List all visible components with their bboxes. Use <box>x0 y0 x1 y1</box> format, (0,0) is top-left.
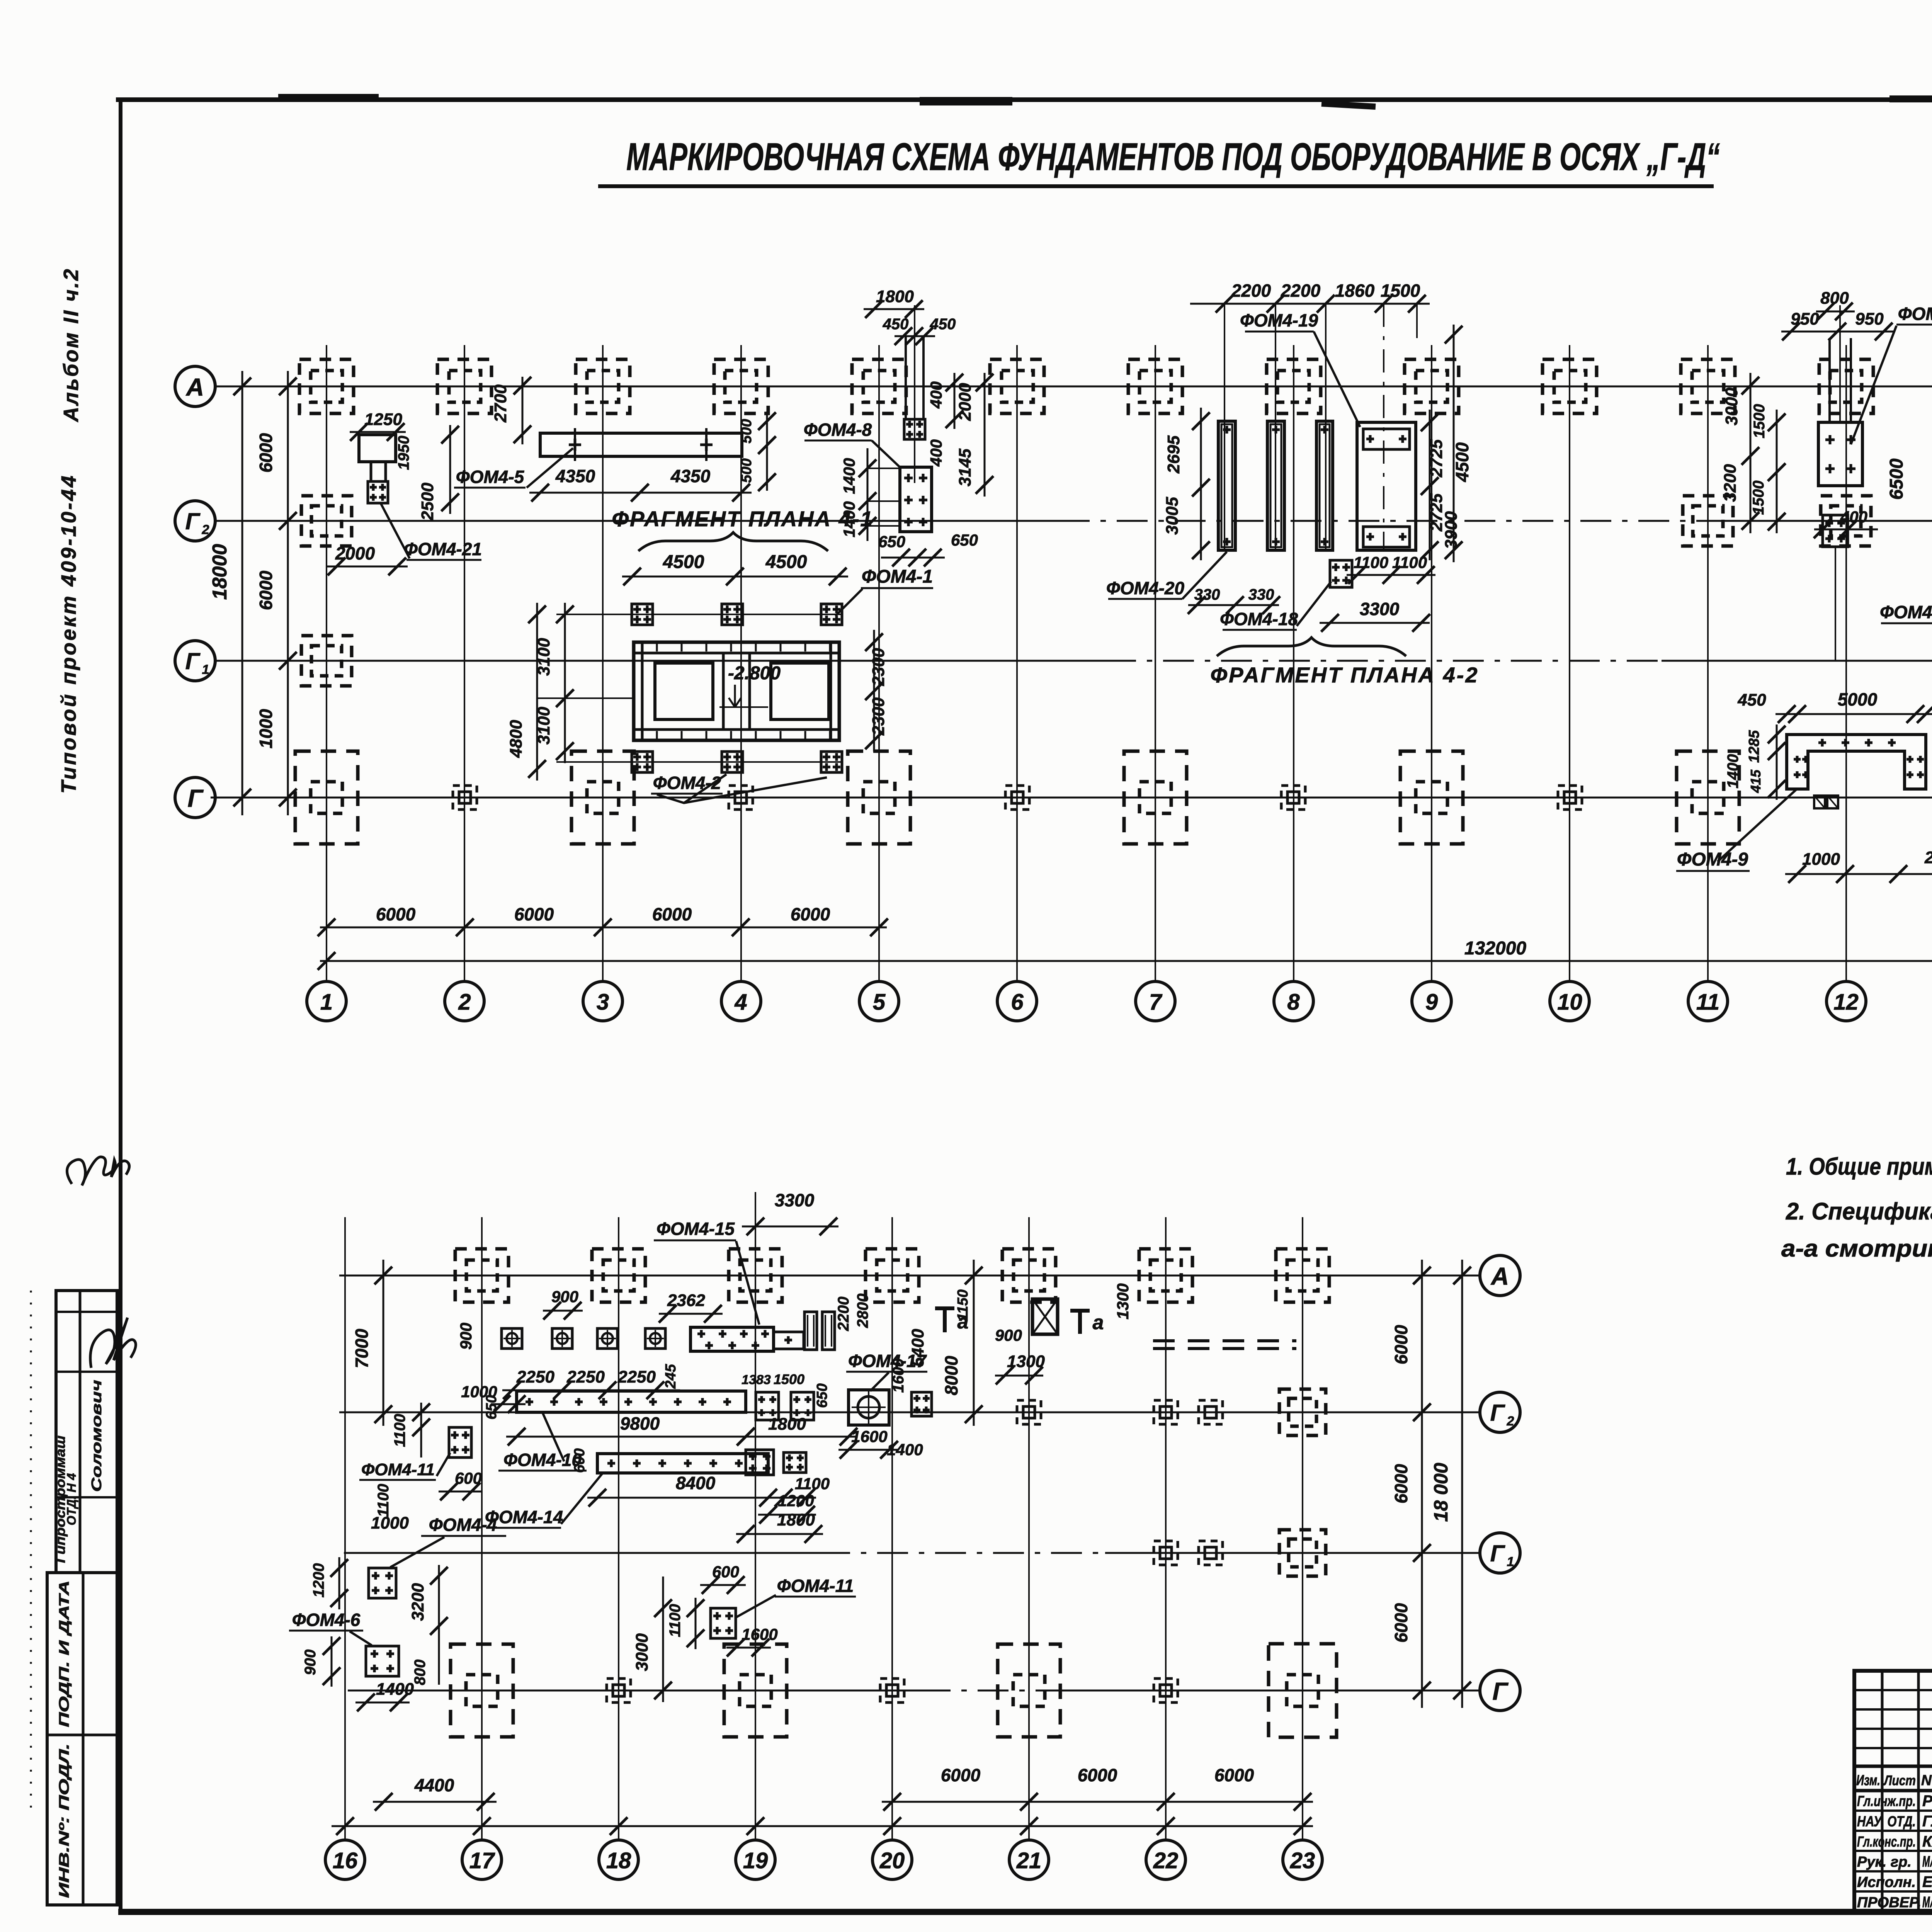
scan smudge top 1 <box>920 97 1012 105</box>
svg-text:10: 10 <box>1557 990 1582 1015</box>
pad FOM4-1 b <box>722 604 743 625</box>
grid circle 6 <box>997 981 1037 1021</box>
svg-text:18: 18 <box>606 1848 631 1873</box>
column G/8 <box>1281 786 1305 810</box>
bottom axis circle A <box>1480 1255 1520 1296</box>
leader FOM4-8 <box>872 440 901 468</box>
dim 450/5000/450 FOM4-9 <box>1776 713 1932 715</box>
foundation FOM4-3 no.1 <box>1818 422 1862 486</box>
svg-text:-2.800: -2.800 <box>728 663 781 684</box>
column A/22 <box>1139 1249 1192 1302</box>
svg-text:3200: 3200 <box>408 1583 427 1621</box>
svg-text:5: 5 <box>873 990 886 1015</box>
svg-text:2700: 2700 <box>491 384 510 423</box>
section mark Ta right <box>1078 1309 1082 1334</box>
column A/23 <box>1276 1249 1329 1302</box>
pad 400 on G2 axis12 <box>1823 515 1848 547</box>
foundation H-block outline <box>634 642 839 740</box>
svg-text:1100: 1100 <box>375 1484 392 1517</box>
svg-text:2300: 2300 <box>869 697 888 736</box>
column G/11 <box>1677 751 1739 844</box>
top plan axis row G2 line <box>215 520 1059 522</box>
svg-text:11: 11 <box>1696 990 1719 1015</box>
dim 3000/3200 left of axis12 <box>1750 373 1752 533</box>
margin signature big <box>90 1318 136 1368</box>
pad FOM4-18 <box>1330 560 1352 587</box>
grid circle 17 <box>462 1840 502 1879</box>
column A/3 <box>576 359 630 413</box>
grid circle 12 <box>1827 981 1866 1021</box>
svg-text:1200: 1200 <box>310 1563 327 1598</box>
grid circle 19 <box>736 1840 775 1879</box>
dim 3300 fragment 4-2 <box>1320 622 1430 624</box>
dim 4350+4350 FOM4-5 <box>529 492 752 494</box>
svg-text:650: 650 <box>814 1383 830 1408</box>
top plan vertical axis lines 1-16 <box>326 345 327 981</box>
svg-text:а: а <box>957 1311 969 1333</box>
overall dim line 132000 <box>320 960 1932 962</box>
svg-text:Лист: Лист <box>1883 1772 1916 1788</box>
bottom row G2 columns <box>1017 1400 1041 1424</box>
leader FOM4-21 <box>381 503 410 558</box>
svg-text:4350: 4350 <box>555 466 595 486</box>
foundation FOM4-8 pad <box>900 467 932 532</box>
svg-text:ИНВ.Nº: ПОДЛ.: ИНВ.Nº: ПОДЛ. <box>56 1743 72 1898</box>
H-block center slot <box>722 653 725 730</box>
svg-text:650: 650 <box>483 1395 500 1419</box>
svg-text:1500: 1500 <box>1750 481 1767 515</box>
svg-text:1600: 1600 <box>742 1625 777 1643</box>
top plan axis row A line <box>215 386 1932 388</box>
svg-text:2000: 2000 <box>956 383 975 421</box>
svg-text:ОТД. Н 4: ОТД. Н 4 <box>65 1473 78 1525</box>
margin handwritten initials <box>67 1157 129 1185</box>
column A/10 <box>1543 359 1597 413</box>
foundation FOM4-10 bar <box>517 1391 746 1412</box>
column A/2 <box>437 359 492 413</box>
svg-text:4: 4 <box>734 990 747 1015</box>
svg-text:Г: Г <box>1492 1677 1509 1705</box>
svg-text:Исполн.: Исполн. <box>1857 1874 1916 1891</box>
margin lower table cell line <box>47 1734 117 1736</box>
svg-text:Nºдокумента: Nºдокумента <box>1921 1772 1932 1789</box>
svg-text:6000: 6000 <box>1214 1765 1254 1785</box>
sheet title underline <box>598 184 1714 188</box>
svg-text:НАУ. ОТД.: НАУ. ОТД. <box>1857 1813 1916 1830</box>
grid circle 16 <box>325 1840 365 1879</box>
scan smudge top 2 <box>1321 104 1376 107</box>
leader FOM4-20 <box>1182 552 1227 599</box>
svg-text:3300: 3300 <box>1360 599 1400 619</box>
svg-text:500: 500 <box>738 458 755 483</box>
tie line left of H-block <box>537 697 634 699</box>
grid circle 2 <box>445 981 484 1021</box>
dim 4500/3900 right <box>1453 325 1455 562</box>
svg-text:ФОМ4-18: ФОМ4-18 <box>1220 609 1298 629</box>
svg-text:3200: 3200 <box>1721 464 1740 502</box>
top plan axis row G1 line <box>215 660 1105 662</box>
svg-text:1600: 1600 <box>890 1359 907 1393</box>
column A/9 <box>1405 359 1459 413</box>
leader FOM4-17 <box>870 1372 889 1391</box>
svg-text:1100: 1100 <box>1392 553 1427 571</box>
svg-text:1. Общие примечания смотр: 1. Общие примечания смотрите на листе КЖ… <box>1786 1153 1932 1180</box>
svg-text:Гл.конс.пр.: Гл.конс.пр. <box>1857 1834 1916 1850</box>
grid circle 7 <box>1136 981 1175 1021</box>
slab 2 <box>1267 421 1284 550</box>
svg-text:1400: 1400 <box>376 1680 414 1699</box>
svg-text:1100: 1100 <box>391 1414 408 1447</box>
svg-text:6000: 6000 <box>1078 1765 1117 1785</box>
leader FOM4-5 <box>527 448 573 488</box>
svg-text:Гл.инж.пр.: Гл.инж.пр. <box>1857 1793 1916 1810</box>
leader FOM4-1 <box>835 589 862 616</box>
scan smudge top 3 <box>1889 95 1932 102</box>
bottom full dim line <box>332 1825 1313 1827</box>
round pad row no.3 <box>597 1328 617 1349</box>
leader FOM4-9 <box>1718 790 1796 862</box>
svg-text:ФОМ4-9: ФОМ4-9 <box>1677 849 1748 870</box>
svg-text:8: 8 <box>1287 990 1300 1015</box>
dim 2300/2300 right of H-block <box>873 630 875 752</box>
bottom plan axis row G line <box>348 1690 920 1692</box>
column A/11 <box>1681 359 1735 413</box>
svg-text:2: 2 <box>202 522 209 537</box>
svg-text:3005: 3005 <box>1163 497 1182 535</box>
column G/4 <box>729 786 753 810</box>
svg-text:ЕРОХИНА: ЕРОХИНА <box>1922 1874 1932 1891</box>
svg-text:1950: 1950 <box>395 436 412 470</box>
svg-text:2200: 2200 <box>1281 281 1321 301</box>
column G2/12 <box>1821 496 1871 546</box>
column G2/11 <box>1683 496 1733 546</box>
dim 2695/3005 left of slabs <box>1200 408 1202 560</box>
svg-text:400: 400 <box>927 439 945 467</box>
svg-text:5400: 5400 <box>908 1329 927 1367</box>
svg-text:ФОМ4-6: ФОМ4-6 <box>292 1610 361 1630</box>
grid circle 11 <box>1688 981 1728 1021</box>
slab 1 FOM4-20 <box>1218 421 1235 550</box>
column G1/1 <box>301 636 352 686</box>
pad at end of FOM4-14 a <box>746 1450 774 1475</box>
svg-text:1: 1 <box>320 990 333 1015</box>
column A/1 <box>299 359 354 413</box>
svg-text:1000: 1000 <box>1802 850 1840 869</box>
svg-text:450: 450 <box>930 316 956 333</box>
svg-text:5000: 5000 <box>1838 689 1878 709</box>
column G/6 <box>1005 786 1029 810</box>
svg-text:Альбом II ч.2: Альбом II ч.2 <box>60 267 83 423</box>
solid pad between section marks <box>1032 1299 1058 1334</box>
svg-text:1500: 1500 <box>1381 281 1420 301</box>
svg-text:6000: 6000 <box>1391 1603 1411 1643</box>
bottom right dim line 18000 <box>1461 1260 1463 1708</box>
grid circle 8 <box>1274 981 1313 1021</box>
svg-text:2200: 2200 <box>835 1297 852 1332</box>
svg-text:8000: 8000 <box>941 1355 961 1395</box>
grid circle 20 <box>872 1840 912 1879</box>
svg-text:ФОМ4-11: ФОМ4-11 <box>777 1576 854 1596</box>
svg-text:А: А <box>185 373 204 401</box>
svg-text:1400: 1400 <box>840 501 858 537</box>
H-block bottom band hatch <box>656 731 658 739</box>
svg-text:МАСЛОБОЙЩИКОВА: МАСЛОБОЙЩИКОВА <box>1922 1852 1932 1870</box>
svg-text:21: 21 <box>1016 1848 1042 1873</box>
round pad row no.2 <box>552 1328 572 1349</box>
svg-text:6000: 6000 <box>652 904 692 924</box>
svg-text:800: 800 <box>1820 289 1849 308</box>
bottom plan axis row G2 line <box>339 1412 1480 1413</box>
svg-text:ФОМ4-5: ФОМ4-5 <box>456 467 525 487</box>
leader FOM4-18 <box>1297 582 1331 626</box>
margin upper table divider <box>79 1291 82 1573</box>
grid circle 22 <box>1146 1840 1185 1879</box>
leader FOM4-11 left <box>437 1453 450 1476</box>
svg-text:2800: 2800 <box>854 1294 871 1328</box>
svg-text:4350: 4350 <box>670 466 711 486</box>
dim 1100/1100 below block <box>1347 574 1435 576</box>
svg-text:22: 22 <box>1153 1848 1179 1873</box>
dim lines left of FOM4-8 pad <box>867 468 900 469</box>
FOM4-19 top insert pad <box>1363 429 1410 449</box>
frame border left <box>119 101 122 1913</box>
svg-text:1200: 1200 <box>778 1492 814 1510</box>
bottom axis circle G <box>1480 1670 1520 1711</box>
dim 4800 left <box>536 603 538 781</box>
svg-text:1000: 1000 <box>256 709 276 748</box>
left dim line 6000/6000/1000 <box>287 371 289 815</box>
column A/6 <box>990 359 1044 413</box>
title block signature rows <box>1854 1810 1932 1812</box>
svg-text:ФОМ4-10: ФОМ4-10 <box>503 1450 582 1470</box>
pads line fragment 4-1 <box>556 614 842 615</box>
column G/1 <box>295 751 358 844</box>
svg-text:2250: 2250 <box>566 1367 605 1386</box>
bottom axis circle G1 <box>1480 1533 1520 1573</box>
H-block left hole <box>655 663 713 719</box>
svg-text:1300: 1300 <box>1114 1283 1132 1319</box>
column A/8 <box>1267 359 1321 413</box>
column A/7 <box>1128 359 1182 413</box>
svg-text:РЫЖАК: РЫЖАК <box>1922 1793 1932 1810</box>
svg-text:6000: 6000 <box>1391 1464 1411 1503</box>
svg-text:1: 1 <box>202 662 209 677</box>
margin lower table divider <box>82 1573 85 1905</box>
svg-text:4500: 4500 <box>663 552 704 572</box>
grid circle 10 <box>1550 981 1589 1021</box>
FOM4-8 strip lines <box>905 336 907 419</box>
dim 330/330 <box>1188 604 1279 606</box>
svg-text:2. Спецификацию фундаментов, з: 2. Спецификацию фундаментов, замаркирова… <box>1786 1198 1932 1225</box>
bottom dim chain 6000 x4 line <box>320 927 887 929</box>
svg-text:16: 16 <box>333 1848 358 1873</box>
bottom plan axis row A line <box>339 1275 1480 1277</box>
bottom row G columns <box>451 1644 513 1737</box>
svg-text:Г: Г <box>1490 1400 1506 1426</box>
svg-text:900: 900 <box>302 1650 319 1675</box>
svg-text:1500: 1500 <box>1751 404 1768 439</box>
dim 4500+4500 fragment 4-1 <box>622 576 848 578</box>
pad cluster FOM4-17 small a <box>756 1392 779 1420</box>
foundation FOM4-9 U-shape <box>1787 735 1926 789</box>
svg-text:Соломович: Соломович <box>88 1380 104 1492</box>
FOM4-3 stem lines <box>1828 338 1831 422</box>
svg-text:2300: 2300 <box>869 648 888 686</box>
svg-text:20: 20 <box>879 1848 905 1873</box>
leader FOM4-3 no.1 <box>1851 326 1896 444</box>
bottom plan axis row G1 line <box>344 1552 819 1554</box>
margin lower table outer <box>47 1573 117 1905</box>
column G/10 <box>1558 786 1582 810</box>
column A/19 <box>729 1249 782 1302</box>
svg-text:МАРКИРОВОЧНАЯ СХЕМА ФУНДАМЕН: МАРКИРОВОЧНАЯ СХЕМА ФУНДАМЕНТОВ ПОД ОБОР… <box>626 135 1720 179</box>
round pad row no.4 <box>645 1328 665 1349</box>
dim 2200/2200/1860/1500 fragment 4-2 <box>1190 303 1430 305</box>
leader FOM4-15 <box>736 1241 759 1325</box>
svg-text:Изм.: Изм. <box>1856 1772 1880 1789</box>
svg-text:ФОМ4-2: ФОМ4-2 <box>653 773 721 793</box>
svg-text:1400: 1400 <box>887 1440 923 1459</box>
grid circle 18 <box>599 1840 638 1879</box>
column A/17 <box>455 1249 509 1302</box>
slab 3 <box>1316 421 1333 550</box>
svg-text:800: 800 <box>412 1660 429 1685</box>
column A/5 <box>852 359 906 413</box>
svg-text:400: 400 <box>927 381 945 409</box>
svg-text:17: 17 <box>469 1848 495 1873</box>
column G/2 <box>453 786 477 810</box>
svg-text:6500: 6500 <box>1886 458 1907 500</box>
margin upper table outer <box>56 1291 117 1573</box>
svg-text:ФОМ4-12: ФОМ4-12 <box>1880 602 1932 622</box>
grid circle 5 <box>859 981 899 1021</box>
hatched pads inside FOM4-9 <box>1814 796 1825 808</box>
svg-text:ФРАГМЕНТ ПЛАНА 4-1: ФРАГМЕНТ ПЛАНА 4-1 <box>612 507 873 531</box>
svg-text:7: 7 <box>1149 990 1163 1015</box>
H-block right hole <box>771 663 829 719</box>
svg-text:650: 650 <box>878 532 905 551</box>
title block upper narrow rows <box>1854 1689 1932 1691</box>
column G/3 <box>571 751 634 844</box>
svg-text:1800: 1800 <box>777 1510 815 1529</box>
svg-text:330: 330 <box>1248 586 1274 603</box>
svg-text:2695: 2695 <box>1164 435 1183 474</box>
column A/18 <box>592 1249 645 1302</box>
leader FOM4-10 <box>543 1413 564 1461</box>
leader FOM4-2 <box>657 777 827 803</box>
left dim line 18000 <box>241 371 243 815</box>
svg-text:Г: Г <box>185 509 201 534</box>
bottom row G1 columns <box>1154 1541 1178 1565</box>
svg-text:1800: 1800 <box>768 1415 806 1434</box>
svg-text:6000: 6000 <box>256 570 276 610</box>
svg-text:950: 950 <box>1791 310 1819 328</box>
svg-text:1400: 1400 <box>1725 754 1742 789</box>
title block header row lines <box>1854 1765 1932 1768</box>
svg-text:18000: 18000 <box>209 544 231 600</box>
svg-text:2000: 2000 <box>1924 848 1932 867</box>
section mark Ta left <box>943 1307 947 1332</box>
svg-text:12: 12 <box>1833 990 1859 1015</box>
svg-text:9800: 9800 <box>620 1413 660 1434</box>
foundation FOM4-6 pad <box>366 1646 399 1676</box>
svg-text:1000: 1000 <box>371 1514 409 1532</box>
svg-text:МАСЛОБОЙЩИКОВА: МАСЛОБОЙЩИКОВА <box>1922 1893 1932 1911</box>
svg-text:2: 2 <box>1507 1414 1514 1429</box>
foundation FOM4-14 bar <box>597 1454 768 1473</box>
svg-text:450: 450 <box>1737 690 1766 709</box>
svg-text:2200: 2200 <box>1231 281 1271 301</box>
svg-text:4800: 4800 <box>507 720 526 758</box>
svg-text:3300: 3300 <box>775 1190 815 1210</box>
foundation FOM4-5 bar <box>540 433 742 456</box>
foundation FOM4-15 bar <box>690 1327 774 1351</box>
dim 2250 x3 <box>502 1389 680 1391</box>
svg-text:2500: 2500 <box>418 483 437 521</box>
svg-text:4500: 4500 <box>1452 442 1472 482</box>
column G2/1 <box>301 496 352 546</box>
svg-text:1860: 1860 <box>1335 281 1375 301</box>
svg-text:6000: 6000 <box>1391 1325 1411 1364</box>
svg-text:415: 415 <box>1748 769 1764 793</box>
svg-text:650: 650 <box>951 531 978 549</box>
svg-text:6000: 6000 <box>376 904 416 924</box>
title block outer frame <box>1854 1671 1932 1912</box>
brace fragment 4-2 <box>1217 638 1406 656</box>
grid circle 4 <box>721 981 761 1021</box>
svg-text:500: 500 <box>738 419 755 443</box>
svg-text:600: 600 <box>571 1448 588 1473</box>
foundation FOM4-4 pad <box>369 1568 396 1598</box>
svg-text:ФОМ4-4: ФОМ4-4 <box>429 1515 497 1535</box>
dashed wall lines <box>1153 1339 1296 1342</box>
axis circle G1 <box>175 641 215 681</box>
column A/12 <box>1819 359 1873 413</box>
column G/9 <box>1400 751 1463 844</box>
column G/5 <box>848 751 910 844</box>
svg-text:1100: 1100 <box>667 1604 684 1637</box>
svg-text:1383: 1383 <box>742 1372 771 1387</box>
bottom plan vertical axis lines <box>344 1217 346 1840</box>
svg-text:Рук. гр.: Рук. гр. <box>1857 1854 1912 1870</box>
top plan axis row G line <box>211 797 1932 799</box>
svg-text:6000: 6000 <box>791 904 830 924</box>
leader FOM4-11 right <box>736 1595 776 1617</box>
dim 1500/1500 <box>1776 410 1778 533</box>
svg-text:ПОДП. И ДАТА: ПОДП. И ДАТА <box>56 1580 72 1727</box>
svg-text:3000: 3000 <box>1722 388 1741 425</box>
svg-text:8400: 8400 <box>676 1473 716 1493</box>
pad FOM4-1 c <box>821 604 842 625</box>
leader FOM4-14 <box>561 1473 603 1524</box>
foundation FOM4-11 right pad <box>711 1608 736 1638</box>
grid circle 21 <box>1009 1840 1049 1879</box>
svg-text:1500: 1500 <box>774 1371 804 1387</box>
svg-text:3000: 3000 <box>633 1633 651 1671</box>
round pad row no.1 <box>502 1328 522 1349</box>
foundation FOM4-21 pad <box>368 481 388 503</box>
grid circle 9 <box>1412 981 1451 1021</box>
frame border bottom <box>118 1909 1932 1915</box>
svg-text:1250: 1250 <box>364 410 402 429</box>
leader FOM4-6 <box>350 1631 372 1645</box>
foundation FOM4-17 round pad <box>849 1390 889 1425</box>
axis circle A <box>175 366 215 406</box>
scan smudge top 4 <box>278 94 379 101</box>
svg-text:Типовой проект 409-10-44: Типовой проект 409-10-44 <box>57 474 80 794</box>
svg-text:ФОМ4-15: ФОМ4-15 <box>656 1219 735 1239</box>
column G/7 <box>1124 751 1187 844</box>
